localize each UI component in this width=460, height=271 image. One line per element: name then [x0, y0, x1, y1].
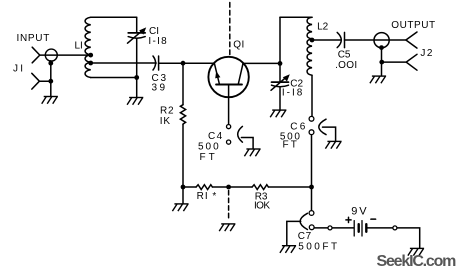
- svg-text:J2: J2: [420, 48, 434, 59]
- svg-text:JI: JI: [13, 63, 25, 74]
- svg-text:SeekIC.com: SeekIC.com: [377, 253, 457, 270]
- svg-text:I-I8: I-I8: [148, 36, 168, 47]
- svg-text:FT: FT: [283, 139, 300, 150]
- svg-text:QI: QI: [233, 40, 245, 51]
- svg-text:500FT: 500FT: [298, 242, 339, 253]
- svg-text:LI: LI: [75, 41, 83, 52]
- svg-text:RI *: RI *: [197, 191, 218, 202]
- svg-text:9V: 9V: [351, 205, 368, 217]
- svg-text:C4: C4: [208, 131, 224, 142]
- svg-text:C7: C7: [298, 231, 312, 242]
- svg-text:INPUT: INPUT: [17, 33, 51, 44]
- svg-text:OUTPUT: OUTPUT: [391, 20, 435, 31]
- svg-text:IOK: IOK: [254, 200, 270, 211]
- svg-text:R2: R2: [160, 106, 174, 117]
- svg-text:.OOI: .OOI: [335, 60, 357, 71]
- svg-text:FT: FT: [200, 152, 218, 163]
- svg-text:I-I8: I-I8: [282, 88, 304, 99]
- svg-text:L2: L2: [317, 22, 329, 33]
- svg-text:IK: IK: [160, 116, 171, 127]
- svg-text:500: 500: [198, 141, 221, 152]
- svg-text:39: 39: [152, 83, 168, 94]
